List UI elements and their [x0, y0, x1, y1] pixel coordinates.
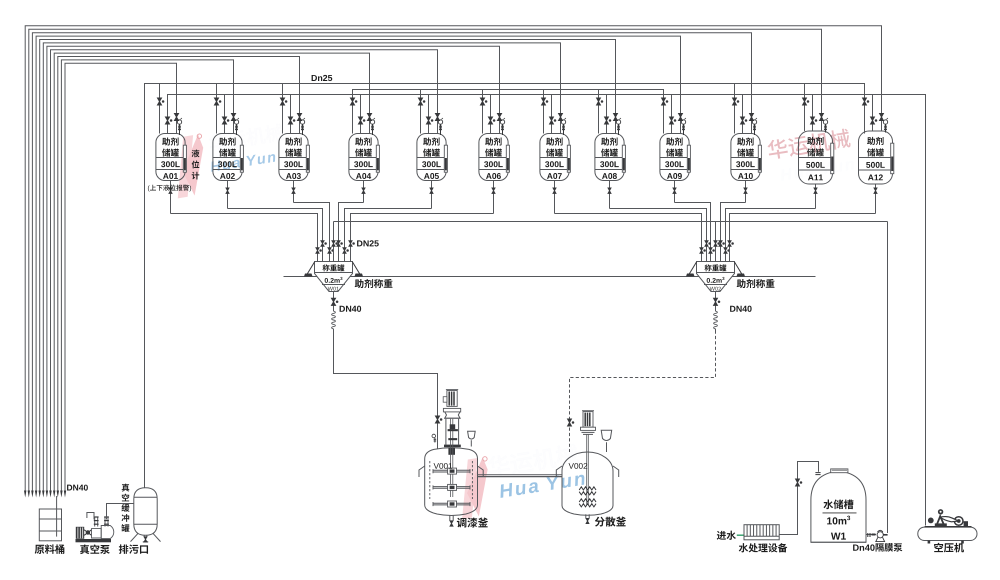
vacuum pump inlet stubs	[94, 517, 96, 527]
level gauge on tank A01	[183, 145, 186, 172]
vacuum pump label 真空泵	[80, 545, 89, 555]
pressure gauge on tank A03	[300, 120, 304, 124]
auxiliary storage tank A01 300L	[156, 134, 185, 181]
suction feed line from barrels to tank A05	[51, 50, 438, 492]
air branch to tank A06	[490, 95, 492, 134]
air branch to tank A07	[551, 95, 553, 134]
outlet pipe and valve under tank A06	[493, 181, 495, 214]
compressed air header h3 from A01 to air compressor riser	[168, 95, 926, 526]
flush water line from diaphragm pump	[334, 221, 888, 223]
level gauge on tank A02	[240, 145, 243, 172]
vacuum pump vent pipe	[87, 513, 94, 520]
buffer tank vertical label 真空缓冲罐	[122, 484, 130, 492]
outlet pipe and valve under tank A07	[554, 181, 556, 214]
drain label 排污口	[119, 544, 129, 554]
kettle V001 body (paint mixing kettle)	[425, 448, 478, 516]
suction feed line from barrels to tank A07	[43, 43, 560, 492]
vacuum buffer tank 真空缓冲罐	[134, 488, 157, 536]
vacuum header h2 from A04 to A09	[353, 90, 664, 134]
suction feed line from barrels to tank A04	[54, 53, 369, 492]
water tank outlet to diaphragm pump	[866, 534, 876, 536]
outlet pipe and valve under tank A02	[227, 181, 229, 209]
agitator motor of V002	[583, 412, 593, 428]
valve on V002 feed	[568, 419, 572, 426]
kettle V002 label 分散釜	[595, 517, 605, 527]
charging hopper of V001	[468, 431, 476, 439]
pressure gauge on tank A07	[561, 120, 565, 124]
dashed transfer line W02 to kettle V002	[570, 331, 716, 453]
weighing label for W01	[355, 279, 364, 288]
support lugs of V001	[419, 466, 425, 477]
auxiliary storage tank A05 300L	[417, 134, 446, 181]
transfer line W01 to kettle V001	[334, 331, 438, 450]
vacuum branch to tank A03	[282, 84, 284, 134]
suction feed line from barrels to tank A01	[65, 63, 177, 492]
water inlet label 进水	[717, 531, 726, 540]
outlet pipe and valve under tank A11	[815, 184, 817, 209]
air branch valves v2	[165, 117, 169, 124]
DN40 label under W01	[340, 306, 345, 312]
pressure gauge on tank A04	[370, 120, 374, 124]
kettle V001 top flange bar	[444, 445, 461, 448]
auxiliary storage tank A02 300L	[213, 134, 242, 181]
diaphragm pump Dn40	[877, 532, 883, 538]
level gauge on tank A03	[306, 145, 309, 172]
suction feed line from barrels to tank A12	[25, 26, 881, 492]
vacuum branch to tank A08	[598, 90, 600, 134]
watermark top-left logo	[168, 121, 290, 198]
DN40 label under W02	[730, 306, 735, 312]
level gauge on tank A07	[567, 145, 570, 172]
auxiliary storage tank A09 300L	[660, 134, 689, 181]
water inlet green pipe	[737, 534, 744, 536]
raw material barrel 原料桶	[39, 509, 61, 541]
auxiliary storage tank A07 300L	[540, 134, 569, 181]
pressure gauge on tank A09	[681, 120, 685, 124]
air branch to tank A02	[224, 95, 226, 134]
air branch to tank A08	[606, 95, 608, 134]
agitator support legs of V001	[445, 419, 447, 445]
buffer tank drain valve 排污口	[143, 535, 145, 537]
suction feed line from barrels to tank A03	[58, 57, 300, 493]
dip tube into barrel	[56, 496, 58, 537]
pressure gauge on tank A12	[883, 120, 887, 124]
suction feed line from barrels to tank A02	[61, 60, 233, 492]
outlet pipe and valve under tank A12	[875, 184, 877, 214]
air branch to tank A05	[428, 95, 430, 134]
level gauge on tank A09	[687, 145, 690, 172]
compressor machinery	[954, 517, 963, 526]
baffles of V001	[429, 461, 431, 499]
air branch to tank A03	[290, 95, 292, 134]
vacuum branch to tank A05	[420, 90, 422, 134]
suction feed line from barrels to tank A06	[47, 46, 500, 492]
outlet pipe and valve under tank A01	[170, 181, 172, 214]
flush water drop into W02	[715, 222, 717, 262]
air branch to tank A09	[671, 95, 673, 134]
weighing platform line	[284, 276, 816, 278]
vacuum branch to tank A01	[159, 84, 161, 134]
vacuum branch to tank A07	[543, 90, 545, 134]
valve on V001 feed	[435, 416, 439, 423]
air branch to tank A12	[872, 95, 874, 132]
vacuum branch to tank A10	[734, 84, 736, 134]
level gauge on tank A04	[376, 145, 379, 172]
level gauge on tank A12	[891, 143, 894, 174]
auxiliary storage tank A12 500L	[859, 131, 893, 184]
flush water drop into W01	[333, 222, 335, 262]
air branch to tank A04	[360, 95, 362, 134]
auxiliary storage tank A03 300L	[279, 134, 308, 181]
outlet pipe and valve under tank A04	[363, 181, 365, 203]
agitator flanges of V002	[581, 427, 596, 430]
level gauge on tank A05	[444, 145, 447, 172]
water storage tank 水储槽	[811, 471, 866, 542]
outlet pipe and valve under tank A09	[674, 181, 676, 203]
load cells of W01	[306, 262, 314, 276]
agitator gearbox and lantern of V001	[443, 408, 460, 412]
vacuum branch to tank A02	[216, 84, 218, 134]
DN25 label at W01 inlets	[357, 240, 362, 246]
auxiliary storage tank A10 300L	[731, 134, 760, 181]
pressure gauge on tank A11	[823, 120, 827, 124]
low/high level alarm note	[148, 185, 150, 191]
pipe from treatment to water tank	[779, 462, 818, 535]
outlet pipe and valve under tank A08	[609, 181, 611, 209]
kettle V001 label 调漆釜	[457, 518, 467, 528]
air compressor 空压机	[918, 527, 977, 540]
barrel label 原料桶	[35, 545, 45, 554]
auxiliary storage tank A08 300L	[595, 134, 624, 181]
V001 tag	[434, 463, 439, 469]
support lugs of V002	[556, 466, 562, 477]
Dn25 header label	[312, 75, 317, 81]
watermark center logo	[453, 442, 588, 519]
suction feed line from barrels to tank A11	[29, 29, 822, 492]
kettle V002 body (dispersing kettle)	[562, 452, 613, 515]
water treatment unit 水处理设备	[744, 525, 779, 540]
pressure gauge on V001 dome	[432, 434, 436, 438]
bottom outlet of V002	[585, 514, 587, 518]
auxiliary storage tank A04 300L	[349, 134, 378, 181]
suction feed line from barrels to tank A09	[36, 36, 680, 492]
diaphragm pump label Dn40隔膜泵	[853, 544, 859, 550]
level gauge on tank A06	[506, 145, 509, 172]
load cells of W02	[688, 262, 696, 276]
flush water riser from pump	[887, 222, 889, 534]
vacuum branch to tank A11	[804, 84, 806, 132]
outlet pipe and valve under tank A10	[745, 181, 747, 203]
auxiliary storage tank A11 500L	[799, 131, 833, 184]
air branch to tank A11	[812, 95, 814, 132]
platform between kettles	[478, 474, 563, 476]
weighing tank W02 inlet valves	[701, 245, 703, 262]
weighing tank W01 funnel body	[315, 262, 353, 292]
impeller paddles of V001	[433, 469, 470, 471]
level gauge on tank A11	[831, 143, 834, 174]
weighing tank W01 inlet valves	[317, 245, 319, 262]
watermark top-right	[767, 128, 855, 182]
compressor label 空压机	[934, 543, 943, 552]
vacuum pump 真空泵	[76, 539, 112, 542]
suction feed line from barrels to tank A10	[32, 33, 751, 492]
disperser discs of V002	[579, 487, 596, 490]
vacuum branch valves v1	[157, 98, 161, 105]
valve on each tank feed drop line	[174, 113, 178, 120]
DN40 label at suction bundle	[67, 485, 72, 491]
pressure gauge on tank A05	[438, 120, 442, 124]
level gauge on tank A08	[622, 145, 625, 172]
agitator shaft and couplings of V001	[449, 419, 451, 497]
valve on water tank feed	[796, 479, 800, 486]
water treatment label 水处理设备	[739, 543, 748, 552]
pressure gauge on tank A10	[752, 120, 756, 124]
water tank texts	[823, 500, 833, 510]
outlet valve and flexible hose under W01	[333, 292, 335, 309]
pressure gauge on tank A02	[234, 120, 238, 124]
charging hopper of V002	[601, 430, 612, 440]
first tank level gauge label 液位计	[192, 149, 200, 157]
auxiliary storage tank A06 300L	[479, 134, 508, 181]
level gauge on tank A10	[758, 145, 761, 172]
pressure gauge on tank A08	[616, 120, 620, 124]
air branch to tank A10	[742, 95, 744, 134]
outlet pipe and valve under tank A05	[431, 181, 433, 209]
pressure gauge on tank A06	[500, 120, 504, 124]
weighing label for W02	[737, 279, 746, 288]
V002 tag	[569, 463, 574, 469]
suction line from buffer tank to pump	[107, 504, 134, 520]
bottom outlet of V001	[449, 515, 451, 520]
buffer tank legs	[131, 533, 139, 541]
water tank inlet flange	[815, 472, 820, 474]
agitator shaft of V002	[586, 434, 588, 505]
pressure gauge on tank A01	[177, 120, 181, 124]
suction feed line from barrels to tank A08	[40, 40, 616, 493]
outlet valve and flexible hose under W02	[715, 292, 717, 309]
vacuum branch to tank A06	[482, 90, 484, 134]
outlet pipe and valve under tank A03	[293, 181, 295, 203]
vacuum header h1 Dn25: buffer tank riser to tank A12	[145, 84, 865, 488]
weighing tank W02 funnel body	[697, 262, 735, 292]
agitator motor of V001	[447, 391, 457, 407]
